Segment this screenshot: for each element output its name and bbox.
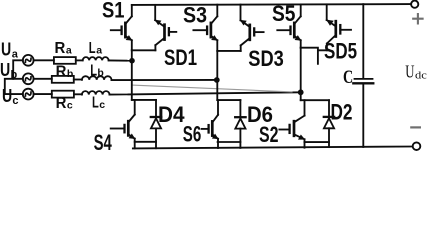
svg-text:L: L bbox=[89, 40, 96, 57]
svg-text:R: R bbox=[56, 95, 67, 112]
transistor S4 bbox=[111, 100, 135, 148]
wire leg3 emitter link bbox=[301, 48, 327, 64]
diode D4 bbox=[151, 100, 161, 148]
source Ua bbox=[23, 55, 34, 66]
wire neutral a-b bbox=[13, 60, 23, 79]
transistor SD1 bbox=[155, 5, 176, 50]
wire phase A to leg1 bbox=[109, 59, 132, 61]
node phase B junction bbox=[214, 77, 220, 83]
svg-text:c: c bbox=[99, 99, 105, 111]
svg-text:a: a bbox=[66, 45, 72, 57]
transistor S6 bbox=[202, 100, 218, 148]
transistor S1 bbox=[111, 5, 132, 50]
wire leg1 lower branch bbox=[132, 99, 156, 101]
terminal DC+ bbox=[411, 1, 418, 8]
wire leg3 lower branch bbox=[301, 99, 329, 101]
svg-text:a: a bbox=[96, 45, 102, 57]
svg-text:L: L bbox=[90, 62, 97, 79]
wire neutral b-c bbox=[5, 79, 23, 94]
diode D2 bbox=[324, 100, 334, 147]
svg-text:S5: S5 bbox=[272, 1, 296, 26]
wire phase B to leg2 bbox=[112, 79, 217, 81]
wire S6-D6 link bbox=[218, 141, 241, 143]
svg-text:R: R bbox=[55, 40, 66, 57]
wire S2-D2 link bbox=[304, 141, 329, 143]
resistor Ra bbox=[54, 57, 76, 64]
svg-text:D6: D6 bbox=[247, 102, 273, 127]
node phase A junction bbox=[129, 58, 135, 64]
source Ub bbox=[23, 73, 34, 84]
svg-text:b: b bbox=[97, 67, 103, 79]
label + sign bbox=[413, 14, 422, 23]
wire Uc to Rc bbox=[34, 93, 52, 95]
node phase C junction bbox=[298, 89, 304, 95]
wire Ra to La bbox=[76, 59, 83, 61]
svg-text:S3: S3 bbox=[183, 2, 207, 27]
svg-text:SD3: SD3 bbox=[248, 46, 283, 71]
wire cross link mid bbox=[132, 85, 292, 92]
diode D6 bbox=[235, 100, 245, 148]
transistor SD3 bbox=[241, 5, 264, 51]
svg-text:D4: D4 bbox=[158, 102, 185, 127]
svg-text:b: b bbox=[11, 69, 18, 81]
resistor Rc bbox=[52, 91, 74, 98]
svg-text:c: c bbox=[12, 95, 18, 107]
inductor La bbox=[83, 57, 109, 60]
resistor Rb bbox=[52, 76, 74, 83]
svg-text:U: U bbox=[1, 39, 11, 59]
svg-text:S1: S1 bbox=[102, 0, 125, 23]
wire leg2 lower branch bbox=[217, 99, 240, 101]
wire Rb to Lb bbox=[74, 79, 82, 81]
wire phase C to leg3 bbox=[110, 92, 301, 94]
svg-text:c: c bbox=[67, 99, 73, 111]
transistor S2 bbox=[279, 100, 304, 148]
svg-text:C: C bbox=[343, 67, 353, 88]
svg-text:SD1: SD1 bbox=[164, 45, 197, 70]
svg-text:SD5: SD5 bbox=[324, 39, 357, 64]
inductor Lc bbox=[82, 91, 110, 94]
svg-text:U: U bbox=[405, 62, 414, 82]
svg-text:dc: dc bbox=[415, 70, 427, 81]
label - sign bbox=[411, 126, 420, 128]
transistor S3 bbox=[193, 5, 217, 51]
wire top DC+ rail bbox=[132, 3, 411, 6]
wire Rc to Lc bbox=[74, 93, 82, 95]
wire leg2 emitter link bbox=[217, 50, 240, 52]
svg-text:S4: S4 bbox=[94, 130, 113, 152]
svg-text:U: U bbox=[0, 60, 10, 80]
wire Ua to Ra bbox=[34, 59, 54, 61]
wire leg1 emitter link bbox=[132, 49, 156, 51]
svg-text:S6: S6 bbox=[183, 121, 202, 146]
transistor SD5 bbox=[327, 4, 351, 50]
svg-text:R: R bbox=[56, 63, 67, 80]
wire Ub to Rb bbox=[34, 78, 52, 80]
transistor S5 bbox=[277, 4, 300, 47]
inductor Lb bbox=[82, 76, 112, 80]
wire leg3 vertical bbox=[300, 48, 302, 100]
source Uc bbox=[23, 89, 34, 100]
wire bottom DC- rail bbox=[133, 147, 413, 149]
svg-text:D2: D2 bbox=[331, 100, 353, 125]
wire S4-D4 link bbox=[135, 141, 156, 143]
capacitor C bbox=[353, 4, 373, 147]
svg-text:L: L bbox=[92, 94, 99, 111]
wire leg1 vertical bbox=[131, 50, 133, 100]
terminal DC- bbox=[413, 142, 421, 150]
wire leg2 vertical bbox=[216, 51, 218, 100]
svg-text:b: b bbox=[67, 68, 73, 80]
svg-text:a: a bbox=[12, 49, 19, 61]
svg-text:U: U bbox=[2, 86, 12, 106]
